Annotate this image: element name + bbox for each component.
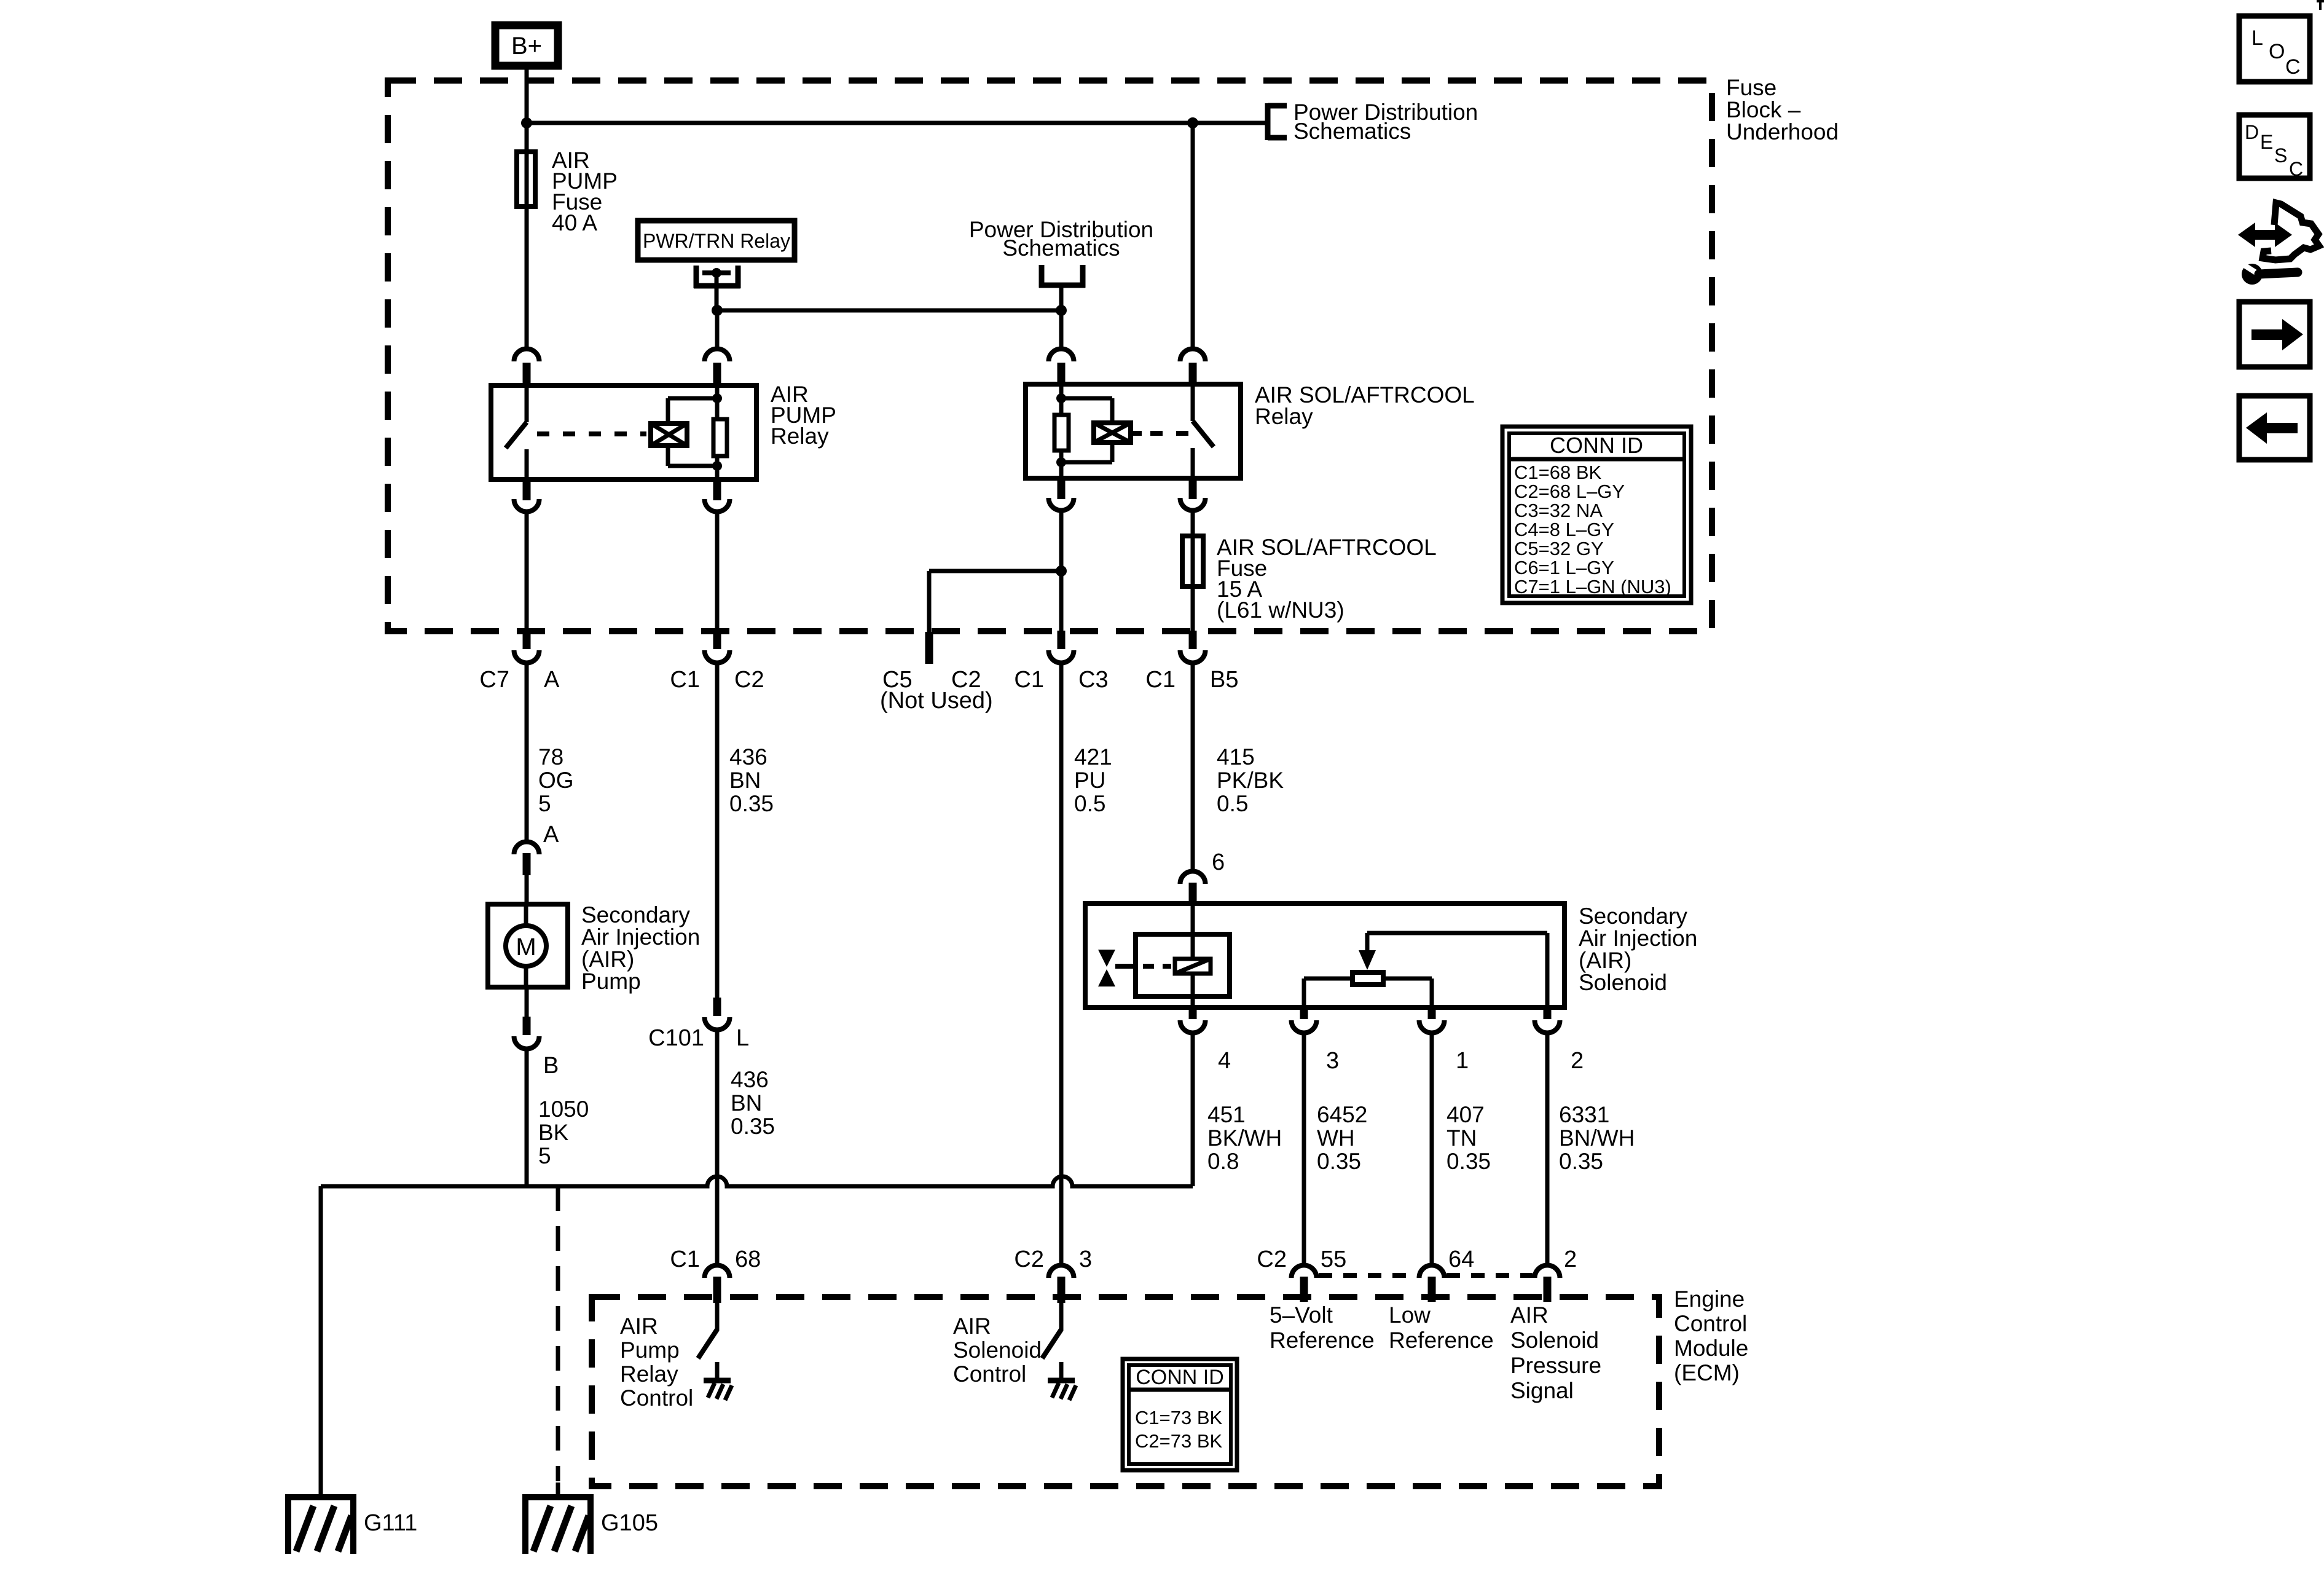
connector pin 6 of AIR solenoid xyxy=(1180,872,1205,884)
svg-text:C101: C101 xyxy=(648,1025,704,1051)
svg-text:BK/WH: BK/WH xyxy=(1207,1125,1282,1151)
connector ECM C2 pin 55 xyxy=(1292,1265,1317,1278)
svg-text:C1=73 BK: C1=73 BK xyxy=(1135,1407,1223,1428)
svg-text:B5: B5 xyxy=(1210,667,1238,693)
svg-text:1050: 1050 xyxy=(538,1097,589,1122)
svg-text:D: D xyxy=(2245,121,2259,143)
svg-text:C1: C1 xyxy=(670,1246,700,1272)
node AIR SOL coil bottom junction xyxy=(1056,457,1066,467)
svg-text:C4=8 L–GY: C4=8 L–GY xyxy=(1514,519,1614,540)
wire coil pin through resistor xyxy=(1059,384,1064,415)
svg-text:0.35: 0.35 xyxy=(1447,1149,1491,1174)
ground G111 xyxy=(285,1494,356,1500)
svg-text:407: 407 xyxy=(1447,1102,1485,1127)
node junction feed to AIR SOL relay xyxy=(1187,117,1198,128)
wire B+ down to fuse xyxy=(525,69,529,149)
svg-text:(AIR): (AIR) xyxy=(581,947,634,972)
svg-text:C2: C2 xyxy=(734,667,764,693)
svg-text:Control: Control xyxy=(953,1361,1026,1387)
svg-text:6: 6 xyxy=(1212,849,1225,875)
svg-text:AIR: AIR xyxy=(620,1313,658,1339)
svg-text:E: E xyxy=(2260,131,2273,153)
svg-text:TN: TN xyxy=(1447,1125,1477,1151)
label box PWR/TRN Relay xyxy=(638,221,795,260)
ground bus wire with hops xyxy=(321,1176,1193,1186)
relay box AIR PUMP Relay xyxy=(491,385,756,479)
svg-text:5: 5 xyxy=(538,791,551,816)
component box Secondary Air Injection (AIR) Solenoid xyxy=(1085,904,1564,1007)
svg-text:PWR/TRN Relay: PWR/TRN Relay xyxy=(643,230,790,252)
svg-text:Air Injection: Air Injection xyxy=(581,924,700,950)
svg-text:0.35: 0.35 xyxy=(731,1114,775,1139)
svg-text:(L61 w/NU3): (L61 w/NU3) xyxy=(1217,597,1345,623)
wire 421 PU 0.5 (C1-C3 down) xyxy=(1059,664,1064,1176)
svg-text:0.35: 0.35 xyxy=(1317,1149,1361,1174)
connector B xyxy=(523,1017,531,1035)
wire coil parallel loop xyxy=(668,396,717,401)
wire junction down to AIR PUMP relay coil pin xyxy=(715,310,720,350)
svg-text:Fuse: Fuse xyxy=(1726,75,1776,100)
svg-text:78: 78 xyxy=(538,744,563,770)
svg-text:C3=32 NA: C3=32 NA xyxy=(1514,500,1603,521)
svg-text:CONN ID: CONN ID xyxy=(1136,1366,1224,1389)
svg-text:AIR: AIR xyxy=(953,1313,991,1339)
svg-text:C1: C1 xyxy=(1145,667,1176,693)
svg-text:1: 1 xyxy=(1456,1048,1469,1074)
svg-text:0.5: 0.5 xyxy=(1217,791,1248,816)
connector pin AIR SOL relay coil (bottom) xyxy=(1058,478,1066,499)
wire branch to not-used pin xyxy=(929,569,1061,573)
wire 415 PK/BK 0.5 (C1-B5 down) xyxy=(1191,664,1195,870)
svg-text:C2: C2 xyxy=(1257,1246,1287,1272)
svg-text:C1: C1 xyxy=(1014,667,1044,693)
svg-text:O: O xyxy=(2269,40,2285,63)
wire feed down to AIR SOL/AFTRCOOL relay switch xyxy=(1191,123,1195,350)
in-line connector A xyxy=(514,842,540,855)
wire coil pin to resistor xyxy=(715,385,720,419)
ECM connector face dashes xyxy=(1319,1273,1417,1278)
svg-text:S: S xyxy=(2274,144,2287,167)
solenoid valve symbol xyxy=(1098,950,1115,967)
svg-text:Schematics: Schematics xyxy=(1294,119,1411,144)
svg-text:6331: 6331 xyxy=(1559,1102,1609,1127)
connector C101 terminal L xyxy=(713,998,721,1016)
connector pin 4 xyxy=(1189,1009,1197,1019)
ECM AIR solenoid control driver switch xyxy=(1059,1303,1064,1331)
icon box LOC xyxy=(2239,16,2310,82)
svg-text:Pump: Pump xyxy=(581,969,641,994)
node coil bottom junction xyxy=(712,461,722,471)
table CONN ID (fuse block) xyxy=(1502,427,1691,603)
svg-text:0.8: 0.8 xyxy=(1207,1149,1239,1174)
PWR/TRN relay output symbol xyxy=(694,266,699,288)
wire AIR PUMP relay coil to connector C1 xyxy=(715,513,720,617)
connector C1/C3 at fuse block edge xyxy=(1059,615,1064,633)
AIR SOL relay coil box xyxy=(1094,423,1131,443)
node coil top junction xyxy=(712,393,722,403)
icon box arrow left xyxy=(2239,396,2310,460)
svg-text:436: 436 xyxy=(729,744,767,770)
wire 6331 BN/WH 0.35 (pin 2 to ECM 2) xyxy=(1545,1033,1550,1265)
solenoid coil element xyxy=(1175,959,1211,974)
svg-text:PK/BK: PK/BK xyxy=(1217,768,1284,793)
svg-text:0.5: 0.5 xyxy=(1074,791,1105,816)
svg-text:C7=1 L–GN (NU3): C7=1 L–GN (NU3) xyxy=(1514,576,1671,597)
svg-text:Low: Low xyxy=(1389,1302,1431,1328)
svg-text:Secondary: Secondary xyxy=(581,902,690,927)
svg-text:C5=32 GY: C5=32 GY xyxy=(1514,538,1604,559)
svg-text:0.35: 0.35 xyxy=(1559,1149,1603,1174)
pressure sensor resistor xyxy=(1352,972,1383,985)
svg-text:B+: B+ xyxy=(511,33,542,60)
wire B+ bus to power distribution bracket xyxy=(527,121,1268,125)
svg-text:Solenoid: Solenoid xyxy=(1579,970,1667,995)
svg-text:0.35: 0.35 xyxy=(729,791,774,816)
svg-text:5–Volt: 5–Volt xyxy=(1270,1302,1333,1328)
svg-text:M: M xyxy=(516,934,536,961)
svg-text:40 A: 40 A xyxy=(552,210,597,235)
connector C1/C2 at fuse block edge xyxy=(715,615,720,633)
wire fuse to AIR PUMP relay switch pin xyxy=(525,209,529,350)
svg-text:Relay: Relay xyxy=(1255,404,1313,429)
svg-text:451: 451 xyxy=(1207,1102,1246,1127)
node junction below B+ xyxy=(521,117,532,128)
node junction PWR/TRN feed xyxy=(712,305,723,316)
wire 421 PU hop over ground bus xyxy=(1059,1176,1064,1265)
connector ECM C2 pin 3 xyxy=(1049,1265,1074,1278)
motor M - Secondary Air Injection (AIR) Pump xyxy=(488,904,568,987)
svg-text:Block –: Block – xyxy=(1726,97,1801,122)
wire PWR/TRN output down xyxy=(715,273,719,310)
solenoid actuator link (dashed) xyxy=(1115,964,1134,969)
connector pin AIR PUMP relay coil (top) xyxy=(705,349,730,362)
pressure sensor right lead xyxy=(1383,977,1432,981)
icon vehicle with wrench xyxy=(2238,222,2292,247)
connector pin AIR SOL relay switch (bottom) xyxy=(1189,478,1197,499)
svg-text:C1: C1 xyxy=(670,667,700,693)
svg-text:64: 64 xyxy=(1448,1246,1474,1272)
svg-text:Module: Module xyxy=(1674,1336,1748,1361)
svg-text:Solenoid: Solenoid xyxy=(1510,1328,1599,1353)
wire bracket to coil feed bus xyxy=(1059,288,1064,310)
svg-text:Control: Control xyxy=(1674,1311,1747,1336)
wire connector A to pump xyxy=(525,875,529,904)
wire pin6 through coil to pin 4 xyxy=(1191,904,1195,959)
table CONN ID (ECM) xyxy=(1123,1359,1237,1470)
wire dashed drop to G105 xyxy=(556,1186,560,1481)
svg-text:2: 2 xyxy=(1571,1048,1584,1074)
svg-text:Relay: Relay xyxy=(771,423,829,449)
svg-text:6452: 6452 xyxy=(1317,1102,1367,1127)
AIR SOL relay actuator (dashed) xyxy=(1131,431,1142,436)
wire relay coil feed bus xyxy=(717,309,1061,313)
connector pin 3 xyxy=(1300,1009,1308,1019)
svg-text:68: 68 xyxy=(735,1246,761,1272)
svg-text:Relay: Relay xyxy=(620,1361,678,1387)
wire junction down to AIR SOL relay coil pin xyxy=(1059,310,1064,350)
bracket to Power Distribution Schematics (top right) xyxy=(1265,103,1271,140)
wire 6452 WH 0.35 (pin 3 to ECM 55) xyxy=(1302,1033,1306,1265)
svg-text:C2=73 BK: C2=73 BK xyxy=(1135,1430,1223,1452)
svg-text:L: L xyxy=(736,1025,749,1051)
svg-text:B: B xyxy=(543,1053,559,1079)
wire pump to connector B xyxy=(525,987,529,1018)
bracket from Power Distribution Schematics (middle) xyxy=(1039,265,1045,288)
wire 1050 BK 5 to ground bus xyxy=(525,1050,529,1186)
wire 436 BN 0.35 (C1-C2 down) xyxy=(715,664,720,998)
pressure sensor left lead xyxy=(1304,977,1352,981)
power symbol B+ box xyxy=(495,25,558,66)
wire 451 BK/WH 0.8 (pin 4 to ground bus) xyxy=(1191,1033,1195,1186)
svg-text:A: A xyxy=(543,822,559,848)
svg-text:Reference: Reference xyxy=(1270,1328,1375,1353)
svg-text:C2: C2 xyxy=(1014,1246,1044,1272)
svg-text:(Not Used): (Not Used) xyxy=(880,688,993,714)
svg-text:C7: C7 xyxy=(479,667,509,693)
node AIR SOL coil top junction xyxy=(1056,393,1066,403)
svg-text:5: 5 xyxy=(538,1143,551,1168)
relay box AIR SOL/AFTRCOOL Relay xyxy=(1026,384,1241,478)
svg-text:C: C xyxy=(2285,55,2301,79)
wire 78 OG 5 (C7-A to pump) xyxy=(525,664,529,841)
svg-text:CONN ID: CONN ID xyxy=(1550,433,1643,458)
wire AIR SOL coil to connector continued xyxy=(1059,571,1064,617)
wire ground bus corner to G111 xyxy=(319,1186,323,1497)
AIR SOL relay resistor xyxy=(1054,415,1069,451)
svg-text:G111: G111 xyxy=(364,1510,417,1536)
svg-text:C1=68 BK: C1=68 BK xyxy=(1514,462,1602,483)
svg-text:BN: BN xyxy=(731,1090,762,1116)
connector pin AIR PUMP relay coil (bottom) xyxy=(713,479,721,500)
ECM internal ground (right) xyxy=(1059,1362,1064,1380)
svg-text:436: 436 xyxy=(731,1067,769,1092)
svg-text:Engine: Engine xyxy=(1674,1286,1745,1312)
svg-text:C3: C3 xyxy=(1078,667,1109,693)
svg-text:415: 415 xyxy=(1217,744,1255,770)
svg-text:C2=68 L–GY: C2=68 L–GY xyxy=(1514,481,1625,502)
svg-text:Air Injection: Air Injection xyxy=(1579,926,1697,951)
connector C7/A at fuse block edge xyxy=(525,615,529,633)
wire 436 BN hop over ground bus xyxy=(715,1176,720,1265)
svg-text:Control: Control xyxy=(620,1385,693,1411)
svg-text:421: 421 xyxy=(1074,744,1112,770)
svg-text:AIR: AIR xyxy=(1510,1302,1549,1328)
wire 436 BN 0.35 (C101 to ECM) xyxy=(715,1031,720,1176)
fuse AIR PUMP Fuse 40 A xyxy=(525,149,529,209)
AIR PUMP relay coil box xyxy=(651,423,687,446)
svg-text:WH: WH xyxy=(1317,1125,1355,1151)
connector pin AIR PUMP relay switch (bottom) xyxy=(523,479,531,500)
fuse block - underhood outline (dashed) xyxy=(388,81,1712,631)
connector pin 2 xyxy=(1544,1009,1552,1019)
svg-text:4: 4 xyxy=(1218,1048,1231,1074)
svg-text:BN: BN xyxy=(729,768,761,793)
connector ECM C1 pin 68 xyxy=(705,1265,730,1278)
svg-text:3: 3 xyxy=(1079,1246,1092,1272)
page corner mark xyxy=(2317,0,2324,2)
svg-text:Secondary: Secondary xyxy=(1579,904,1687,929)
svg-text:G105: G105 xyxy=(601,1510,658,1536)
svg-text:Pump: Pump xyxy=(620,1337,680,1363)
svg-text:Pressure: Pressure xyxy=(1510,1353,1601,1378)
svg-text:L: L xyxy=(2251,26,2263,50)
solenoid pressure sensor loop xyxy=(1367,931,1547,935)
svg-text:(AIR): (AIR) xyxy=(1579,948,1631,973)
wire AIR PUMP relay switch to connector C7 xyxy=(525,513,529,617)
svg-text:BK: BK xyxy=(538,1120,569,1145)
AIR PUMP relay actuator (dashed) xyxy=(537,431,646,436)
svg-text:Signal: Signal xyxy=(1510,1378,1574,1403)
wire 407 TN 0.35 (pin 1 to ECM 64) xyxy=(1430,1033,1434,1265)
node junction not-used branch xyxy=(1056,565,1067,577)
svg-text:OG: OG xyxy=(538,768,574,793)
connector pin AIR PUMP relay switch (top) xyxy=(514,349,540,362)
connector ECM pin 2 xyxy=(1535,1265,1560,1278)
svg-text:55: 55 xyxy=(1321,1246,1346,1272)
fuse AIR SOL/AFTRCOOL 15 A xyxy=(1191,511,1195,536)
engine control module outline (dashed) xyxy=(592,1297,1659,1486)
svg-text:Schematics: Schematics xyxy=(1002,235,1120,261)
svg-text:A: A xyxy=(544,667,560,693)
node junction power distribution drop xyxy=(1056,305,1067,316)
svg-text:3: 3 xyxy=(1326,1048,1339,1074)
connector pin AIR SOL relay switch (top) xyxy=(1180,349,1205,362)
connector ECM pin 64 xyxy=(1419,1265,1445,1278)
AIR PUMP relay switch xyxy=(525,385,529,422)
svg-text:BN/WH: BN/WH xyxy=(1559,1125,1635,1151)
ground G105 xyxy=(522,1494,594,1500)
connector C1/B5 at fuse block edge xyxy=(1191,615,1195,633)
svg-text:PU: PU xyxy=(1074,768,1105,793)
ECM AIR pump relay control driver switch xyxy=(715,1303,720,1331)
svg-text:(ECM): (ECM) xyxy=(1674,1360,1740,1385)
svg-text:C: C xyxy=(2289,158,2303,180)
connector pin 1 xyxy=(1428,1009,1436,1019)
icon box DESC xyxy=(2239,115,2310,178)
pin C5/C2 not used stub xyxy=(925,632,933,664)
wire AIR SOL relay coil to connector C1 (C3) xyxy=(1059,511,1064,571)
svg-text:C6=1 L–GY: C6=1 L–GY xyxy=(1514,557,1614,578)
pressure sensor arrow xyxy=(1365,933,1370,951)
AIR PUMP relay resistor xyxy=(713,419,727,456)
ECM internal ground (left) xyxy=(715,1362,720,1380)
connector pin AIR SOL relay coil (top) xyxy=(1049,349,1074,362)
solenoid coil outline box xyxy=(1136,934,1230,996)
wire AIR SOL coil parallel loop xyxy=(1061,396,1112,401)
AIR SOL relay switch xyxy=(1191,384,1195,421)
svg-text:Reference: Reference xyxy=(1389,1328,1494,1353)
svg-text:Underhood: Underhood xyxy=(1726,119,1839,144)
svg-text:Solenoid: Solenoid xyxy=(953,1337,1042,1363)
svg-text:2: 2 xyxy=(1564,1246,1577,1272)
icon box arrow right xyxy=(2239,302,2310,367)
